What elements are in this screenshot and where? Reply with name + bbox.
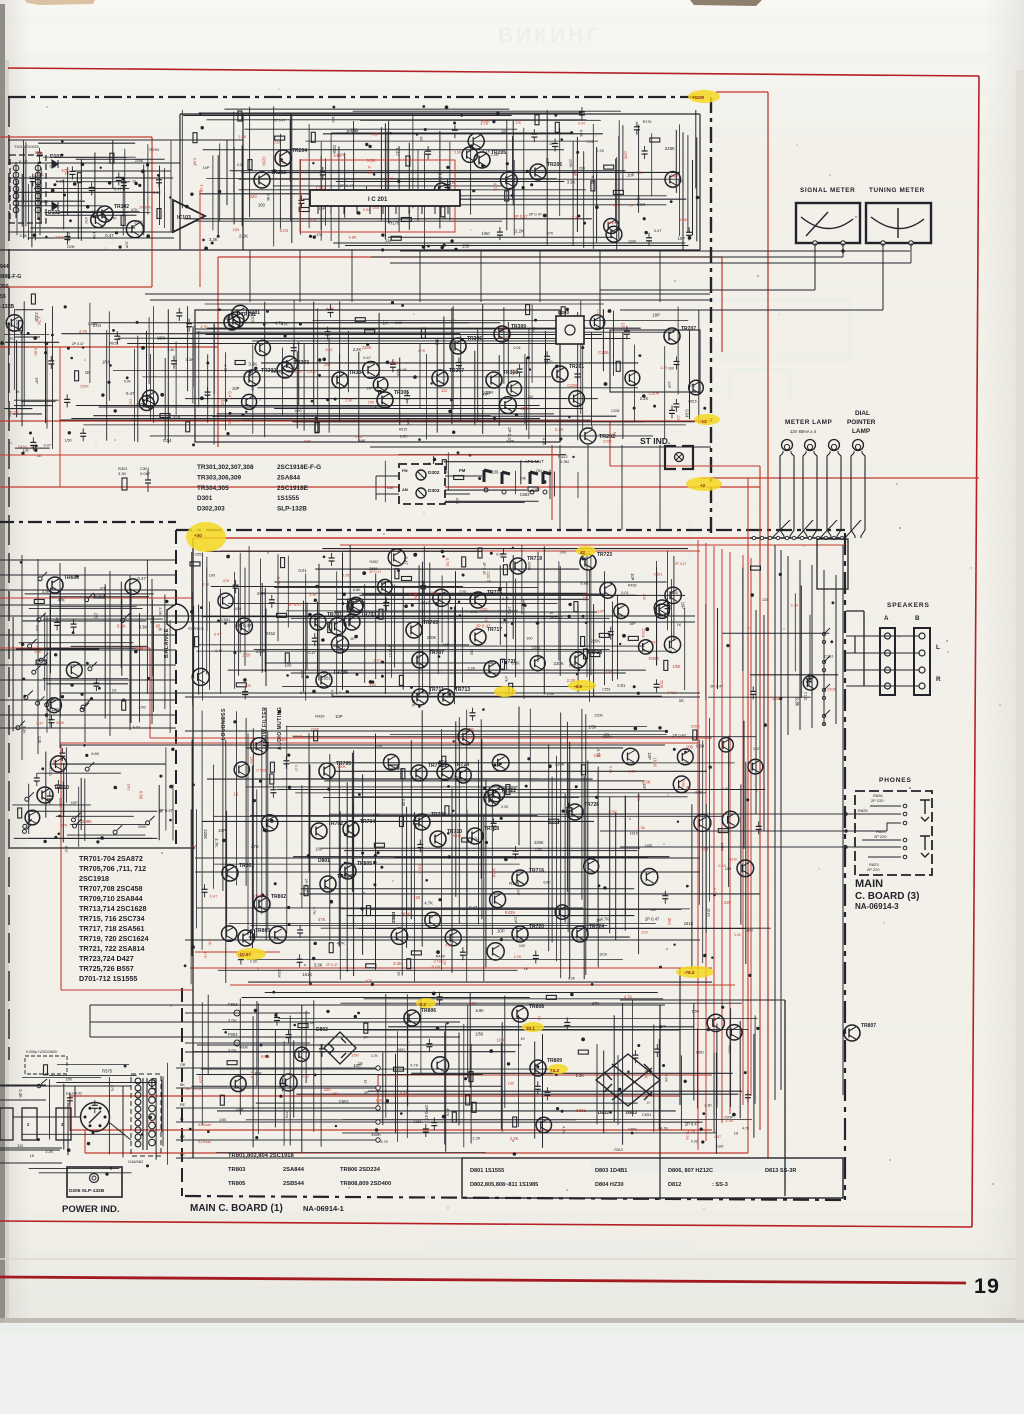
junction amp-upper j27	[224, 622, 227, 625]
svg-text:4.7K: 4.7K	[502, 597, 510, 601]
svg-text:220K: 220K	[129, 399, 133, 408]
wire amp-upper v10	[234, 572, 236, 689]
svg-text:R313: R313	[614, 1148, 622, 1152]
svg-text:-12: -12	[700, 419, 707, 424]
junction amp-lower j11	[374, 854, 377, 857]
junction amp-lower-left j10	[43, 840, 46, 843]
capacitor/resistor tuner-row1-left c1	[30, 174, 36, 187]
junction tuner-row1 j58	[530, 183, 533, 186]
svg-text:TR713: TR713	[455, 687, 470, 693]
svg-text:2P 0.47: 2P 0.47	[514, 214, 529, 219]
svg-text:0.01: 0.01	[621, 591, 628, 595]
left column rail y590	[0, 589, 176, 591]
junction amp-lower j3	[373, 883, 376, 886]
junction amp-left-col j11	[72, 631, 75, 634]
junction power-section j22	[570, 993, 574, 997]
svg-text:TR303,306,309: TR303,306,309	[197, 474, 242, 481]
svg-text:3.3K: 3.3K	[445, 944, 453, 948]
svg-text:TR717, 718 2SA561: TR717, 718 2SA561	[79, 924, 145, 933]
wire tuner-row1 h23	[369, 204, 666, 206]
left column vertical x60	[59, 563, 61, 748]
junction tuner-row2 j36	[254, 367, 257, 370]
svg-text:R825: R825	[858, 808, 868, 813]
svg-text:0.01: 0.01	[374, 658, 383, 663]
svg-text:47K: 47K	[455, 498, 459, 505]
junction amp-lower j30	[499, 762, 502, 765]
capacitor/resistor amp-upper c14	[383, 598, 389, 611]
junction tuner-row2-left j10	[29, 432, 32, 435]
red bus bundle wire 2	[705, 543, 707, 1141]
svg-text:220K: 220K	[91, 210, 100, 214]
capacitor/resistor tuner-row2 c19	[624, 326, 630, 339]
svg-text:R: R	[936, 676, 941, 683]
svg-text:1K: 1K	[629, 204, 634, 208]
wire amp-lower v32	[401, 768, 403, 976]
wire amp-upper h8	[362, 593, 604, 595]
svg-text:2.2K: 2.2K	[640, 396, 649, 401]
transistor power-section Q3	[231, 1076, 247, 1092]
tuner row2 rail y300	[150, 299, 710, 301]
wire tuner-row2 h18	[185, 398, 598, 400]
junction tuner-row2 j30	[493, 417, 496, 420]
capacitor/resistor power-section c6	[745, 1090, 751, 1103]
svg-text:TR703: TR703	[361, 612, 376, 618]
capacitor/resistor amp-lower c12	[238, 952, 244, 965]
wire power-section v10	[293, 1040, 295, 1117]
junction tuner-row2 j20	[608, 309, 612, 313]
capacitor/resistor tuner-row1 c10	[364, 186, 370, 199]
svg-text:2P 0.47: 2P 0.47	[482, 562, 486, 575]
junction power-section j35	[335, 1125, 337, 1127]
svg-text:R176: R176	[447, 181, 455, 185]
wire amp-lower v8	[226, 811, 228, 935]
svg-text:C651: C651	[339, 1099, 350, 1104]
svg-text:TR725: TR725	[587, 650, 602, 656]
wire amp-lower v30	[362, 774, 364, 954]
junction tuner-row2 j40	[299, 323, 302, 326]
junction tuner-row1 j47	[481, 164, 484, 167]
svg-text:1K: 1K	[15, 390, 20, 394]
capacitor/resistor amp-lower c39	[401, 769, 405, 779]
wire amp-upper h16	[291, 617, 610, 619]
wire tuner-row1-left h12	[57, 211, 127, 213]
wire tuner-row1 v5	[226, 140, 228, 205]
svg-text:239: 239	[462, 244, 470, 249]
wire connector-row h1	[398, 454, 566, 456]
wire power-section v35	[596, 1044, 598, 1124]
svg-text:10P: 10P	[573, 169, 578, 177]
svg-text:TR726: TR726	[584, 802, 599, 808]
junction amp-upper j15	[578, 669, 581, 672]
capacitor/resistor tuner-row2-left c3	[30, 437, 36, 450]
meter wire drop3	[882, 243, 884, 310]
junction amp-upper j30	[381, 661, 384, 664]
capacitor/resistor tuner-row1 c11	[555, 122, 559, 132]
capacitor/resistor amp-lower c9	[462, 838, 472, 842]
capacitor/resistor amp-left-col c3	[36, 660, 46, 664]
wire tuner-row2 h5	[207, 327, 641, 329]
wire amp-upper v51	[523, 599, 525, 699]
wire tuner-row2 v57	[582, 344, 584, 432]
junction tuner-row1 j22	[190, 193, 193, 196]
left column rail y715	[0, 714, 176, 716]
svg-text:0.02: 0.02	[691, 1140, 698, 1144]
wire tuner-row1-left h7	[34, 188, 129, 190]
junction tuner-row1 j44	[416, 133, 418, 135]
svg-text:0.47: 0.47	[363, 355, 371, 360]
svg-text:220K: 220K	[135, 159, 144, 163]
transistor amp-lower Q21	[384, 754, 400, 770]
junction amp-left-col j17	[165, 600, 168, 603]
meter terminal 1	[813, 241, 817, 245]
svg-text:47K: 47K	[254, 1071, 262, 1076]
junction tuner-row1 j50	[643, 217, 646, 220]
transistor amp-lower Q9	[251, 738, 268, 755]
wire amp-upper h19	[333, 645, 644, 647]
junction tuner-row1 j57	[460, 114, 463, 117]
wire tuner-row2 h23	[93, 415, 490, 417]
junction amp-lower j73	[658, 726, 661, 729]
speaker terminal B4	[919, 683, 925, 689]
wire amp-lower h21	[344, 850, 638, 852]
junction amp-lower j45	[438, 898, 441, 901]
junction tuner-row1 j1	[211, 242, 214, 245]
svg-text:100: 100	[497, 1037, 505, 1042]
wire amp-upper v46	[499, 565, 501, 645]
wire amp-lower v21	[309, 764, 311, 934]
red vertical x85	[84, 1130, 86, 1153]
wire amp-lower v23	[329, 754, 331, 941]
wire power-section v27	[469, 993, 471, 1088]
capacitor/resistor amp-lower c21	[693, 730, 697, 740]
junction tuner-row1-left j10	[61, 154, 64, 157]
left column rail y665	[0, 664, 176, 666]
capacitor/resistor tuner-row1-left c9	[89, 183, 95, 196]
svg-text:3.3K: 3.3K	[795, 697, 800, 706]
svg-text:10P: 10P	[394, 1074, 398, 1081]
wire amp-lower h3	[293, 736, 756, 738]
junction tuner-row2 j10	[318, 358, 321, 361]
svg-text:-78.3: -78.3	[684, 970, 695, 975]
junction amp-lower j29	[562, 810, 565, 813]
svg-text:TR809: TR809	[547, 1058, 562, 1064]
capacitor/resistor amp-lower-left c3	[18, 808, 22, 818]
svg-text:0.04: 0.04	[280, 228, 289, 233]
capacitor/resistor amp-upper c10	[608, 627, 614, 640]
wire power-section v9	[289, 1016, 291, 1146]
svg-text:AM: AM	[402, 488, 408, 492]
svg-text:TR805: TR805	[357, 861, 372, 867]
wire amp-lower v12	[251, 765, 253, 948]
junction power-section j24	[507, 1062, 510, 1065]
svg-text:47K: 47K	[285, 1112, 289, 1119]
red amp rail y743	[60, 742, 698, 744]
junction amp-upper j19	[435, 602, 438, 605]
wire tuner-row2 h24	[212, 415, 616, 417]
transistor amp-upper Q8	[236, 618, 252, 634]
wire tuner-row1 v20	[325, 158, 327, 225]
junction amp-upper-right j4	[779, 573, 782, 576]
capacitor/resistor tuner-row1-left c3	[110, 153, 114, 163]
svg-text:10P: 10P	[629, 622, 636, 626]
transistor amp-lower Q14	[555, 905, 569, 919]
svg-text:TR709,710 2SA844: TR709,710 2SA844	[79, 894, 143, 903]
bottom sheet fold shadow	[0, 1318, 1024, 1323]
wire amp-upper v31	[384, 581, 386, 694]
junction power-section j3	[314, 1074, 317, 1077]
wire tuner-row2 v44	[474, 351, 476, 425]
junction amp-lower j48	[288, 923, 291, 926]
capacitor/resistor tuner-row2 c18	[205, 387, 211, 400]
wire amp-upper v4	[198, 605, 200, 695]
tuner row2 rail y420	[60, 419, 540, 421]
capacitor/resistor tuner-row2 c20	[75, 371, 79, 381]
junction tuner-row1 j13	[645, 231, 648, 234]
svg-text:299K: 299K	[138, 825, 147, 829]
svg-text:4.7K: 4.7K	[601, 916, 610, 921]
wire amp-lower h7	[334, 770, 707, 772]
svg-text:1/50: 1/50	[294, 408, 302, 413]
junction amp-lower j6	[358, 793, 361, 796]
wire amp-lower v37	[441, 729, 443, 970]
junction amp-upper j39	[512, 547, 514, 549]
wire tuner-row1-left v21	[147, 144, 149, 214]
junction tuner-row1 j18	[670, 200, 673, 203]
capacitor/resistor amp-upper-right c1	[751, 566, 761, 570]
junction amp-lower j50	[270, 819, 274, 823]
junction tuner-row2 j33	[64, 305, 67, 308]
wire tuner-row2 v60	[613, 311, 615, 376]
junction amp-upper j29	[459, 614, 461, 616]
junction power-section j18	[275, 1012, 277, 1014]
wire tuner-row2 h14	[113, 370, 500, 372]
capacitor/resistor tuner-row1 c4	[320, 167, 326, 180]
junction amp-left-col j5	[122, 699, 125, 702]
capacitor/resistor amp-lower c37	[411, 951, 421, 955]
junction amp-lower-left j6	[58, 815, 61, 818]
svg-text:2.2K: 2.2K	[555, 427, 564, 432]
junction tuner-row2 j44	[241, 414, 244, 417]
junction tuner-row1-left j25	[61, 140, 64, 143]
svg-text:19: 19	[358, 1061, 363, 1066]
transistor amp-upper-right Q1	[803, 676, 817, 690]
capacitor/resistor amp-lower c32	[756, 821, 762, 834]
wire tuner-row1 v12	[279, 134, 281, 229]
svg-text:T101 LE10020: T101 LE10020	[14, 145, 39, 149]
capacitor/resistor amp-lower c2	[566, 803, 572, 816]
junction amp-lower j9	[438, 761, 441, 764]
svg-text:220K: 220K	[55, 234, 64, 239]
junction power-section j19	[631, 1132, 634, 1135]
wire power-section h12	[201, 1068, 550, 1070]
wire amp-left-col v9	[121, 599, 123, 676]
capacitor/resistor amp-lower c31	[270, 762, 274, 772]
wire amp-left-col v12	[146, 560, 148, 694]
wire tuner-row2 v10	[164, 358, 166, 440]
phones wire entry dots	[844, 812, 848, 849]
junction amp-lower j52	[192, 784, 195, 787]
junction amp-lower-left j7	[54, 836, 57, 839]
junction amp-upper j23	[362, 571, 366, 575]
svg-text:220: 220	[641, 930, 647, 934]
wire tuner-row1 v27	[386, 131, 388, 196]
svg-text:TR706: TR706	[333, 670, 348, 676]
junction amp-lower j70	[253, 799, 256, 802]
svg-text:C551: C551	[602, 687, 610, 691]
wire amp-left-col v15	[164, 595, 166, 710]
wire tuner-row2 h12	[127, 343, 582, 345]
svg-text:1K: 1K	[364, 1091, 369, 1095]
wire power-section v45	[697, 1028, 699, 1108]
svg-text:2P 0.47: 2P 0.47	[274, 118, 286, 122]
tuner box right vertical x700	[699, 114, 701, 250]
wire amp-upper v65	[656, 567, 658, 665]
svg-text:161K: 161K	[706, 908, 711, 917]
junction tuner-row2 j1	[566, 308, 569, 311]
svg-text:0.47: 0.47	[722, 787, 729, 791]
svg-text:TR305: TR305	[394, 390, 409, 396]
transistor TR202	[580, 428, 596, 444]
black amp-left bottom border	[10, 847, 195, 849]
wire tuner-row2 v56	[580, 301, 582, 414]
svg-text:100: 100	[668, 367, 674, 371]
wire amp-left-col h2	[49, 596, 149, 598]
junction tuner-row2 j38	[568, 416, 570, 418]
svg-text:TR807: TR807	[861, 1023, 876, 1029]
svg-text:6.8K: 6.8K	[400, 434, 408, 439]
junction amp-upper j61	[450, 607, 453, 610]
svg-text:6.8K: 6.8K	[330, 690, 334, 698]
junction power-section j32	[627, 1071, 629, 1073]
junction tuner-row1 j46	[526, 170, 529, 173]
capacitor/resistor tuner-row2 c23	[375, 383, 381, 396]
capacitor/resistor amp-lower-left c5	[55, 780, 61, 793]
svg-text:9I8E-F-G: 9I8E-F-G	[0, 274, 21, 280]
junction tuner-row2 j43	[263, 323, 266, 326]
junction tuner-row1 j37	[381, 233, 384, 236]
wire tuner-row2 v33	[347, 331, 349, 392]
wire amp-lower-left v8	[84, 779, 86, 842]
tuning meter M2 box	[866, 203, 931, 243]
wire amp-lower-left v7	[80, 778, 82, 830]
wire tuner-row1-left h13	[45, 212, 151, 214]
phones jack lower	[920, 836, 930, 857]
capacitor/resistor tuner-row2 c17	[544, 351, 550, 364]
capacitor/resistor tuner-row2-left c1	[31, 294, 35, 304]
junction tuner-row2-left j3	[33, 336, 37, 340]
transistor amp-lower Q23	[492, 754, 509, 771]
lamp bus terminal 8	[808, 536, 811, 539]
svg-text:220K: 220K	[300, 671, 304, 680]
svg-text:OR: OR	[180, 1063, 186, 1067]
junction power-section j44	[702, 1112, 705, 1115]
wire power-section h23	[342, 1132, 716, 1134]
wire tuner-row1 v50	[616, 157, 618, 249]
wire amp-lower-left h4	[27, 810, 158, 812]
junction tuner-row2 j32	[109, 364, 112, 367]
wire amp-lower-left v3	[62, 781, 64, 842]
junction amp-lower j68	[447, 855, 451, 859]
junction power-section j14	[659, 1025, 662, 1028]
junction tuner-row1-left j23	[33, 233, 37, 237]
svg-text:2P 220: 2P 220	[871, 798, 884, 803]
wire amp-left-col v3	[46, 616, 48, 733]
svg-text:TR201: TR201	[569, 364, 584, 370]
junction power-section j36	[618, 1088, 621, 1091]
svg-text:2P 0.47: 2P 0.47	[675, 562, 687, 566]
wire amp-lower-left v6	[78, 787, 80, 847]
svg-text:1K: 1K	[429, 916, 434, 920]
junction tuner-row2 j52	[218, 308, 221, 311]
svg-text:2P 0.47: 2P 0.47	[672, 733, 686, 738]
transistor power-section Q2	[536, 1117, 551, 1132]
junction amp-upper j10	[404, 604, 408, 608]
wire tuner-row1-left v11	[63, 179, 65, 229]
wire tuner-row1-left v22	[159, 166, 161, 226]
junction tuner-row1 j15	[554, 114, 557, 117]
svg-text:TR715, 716 2SC734: TR715, 716 2SC734	[79, 914, 145, 923]
wire amp-upper v45	[462, 607, 464, 682]
svg-text:74.3: 74.3	[550, 1068, 559, 1073]
wire amp-lower-left h8	[14, 837, 158, 839]
svg-text:2.2K: 2.2K	[10, 410, 19, 415]
junction amp-lower-left j5	[159, 775, 162, 778]
capacitor/resistor amp-lower c19	[367, 906, 371, 916]
wire amp-upper v48	[512, 555, 514, 639]
svg-text:0.47: 0.47	[386, 176, 395, 181]
svg-text:R439: R439	[315, 713, 324, 718]
wire amp-lower v46	[483, 815, 485, 981]
svg-text:161K: 161K	[630, 831, 639, 835]
wire power-section v6	[257, 1003, 259, 1134]
svg-text:220: 220	[324, 362, 331, 367]
wire amp-lower v26	[346, 782, 348, 972]
red vertical x760	[759, 466, 761, 1130]
svg-text:246: 246	[520, 476, 526, 480]
svg-text:3.3K: 3.3K	[248, 362, 257, 367]
svg-text:2.2K: 2.2K	[583, 593, 588, 602]
junction tuner-row2 j57	[107, 381, 110, 384]
junction tuner-row2 j55	[266, 310, 269, 313]
capacitor/resistor amp-upper c11	[509, 683, 513, 693]
svg-text:+30: +30	[194, 533, 202, 538]
svg-text:10P: 10P	[71, 800, 78, 805]
capacitor/resistor amp-upper c5	[503, 565, 507, 575]
capacitor/resistor tuner-row2 c28	[328, 305, 334, 318]
transistor amp-upper Q1	[600, 582, 616, 598]
svg-text:100: 100	[370, 683, 376, 687]
wire amp-lower v13	[252, 728, 254, 928]
red amp vertical x150	[149, 648, 151, 738]
svg-text:2.2K: 2.2K	[515, 228, 524, 233]
wire tuner-row2 v55	[577, 312, 579, 440]
svg-text:47K: 47K	[689, 384, 696, 388]
svg-text:47K: 47K	[203, 951, 208, 958]
capacitor/resistor amp-upper c33	[328, 623, 332, 633]
wire amp-lower v51	[548, 744, 550, 951]
wire amp-lower v66	[615, 812, 617, 939]
capacitor/resistor tuner-row2 c3	[171, 356, 177, 369]
svg-text:0.04: 0.04	[696, 744, 705, 749]
svg-text:4.7K: 4.7K	[326, 307, 335, 312]
wire amp-left-col h9	[46, 647, 136, 649]
lamp bus terminal 1	[752, 536, 755, 539]
junction power-section j47	[446, 1022, 448, 1024]
wire tuner-row1-left v20	[143, 174, 145, 233]
svg-text:4.7K: 4.7K	[418, 349, 426, 353]
st-ind bracket box	[665, 446, 693, 469]
svg-text:4.7K: 4.7K	[257, 591, 266, 596]
